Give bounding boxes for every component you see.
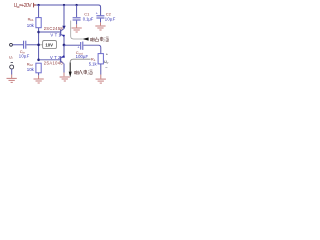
wire stub to voltage box (40, 44, 43, 46)
arrow for source-current annotation (82, 37, 88, 40)
svg-text:Rb1: Rb1 (28, 17, 34, 23)
wire C1 stem (76, 5, 78, 17)
wire top rail (36, 5, 100, 15)
node output junction (63, 44, 66, 47)
wire RL bottom (100, 64, 102, 75)
wire input terminal (10, 43, 13, 46)
node rail-C1 junction (75, 4, 77, 6)
capacitor Cout (81, 42, 83, 50)
ground below C2 (95, 26, 105, 30)
resistor Rb2 (36, 63, 41, 73)
ground below C1 (72, 28, 82, 32)
wire VT1 emitter down to output node (63, 37, 65, 45)
capacitor C1 (73, 18, 81, 20)
ground below RL (96, 79, 106, 83)
label source current (Chinese) (90, 37, 108, 42)
capacitor Cin (24, 41, 26, 49)
wire VT2 emitter up to output node (63, 45, 65, 55)
current arrow on VT1 collector (62, 26, 65, 30)
svg-text:ui: ui (9, 54, 12, 60)
svg-text:5.1k: 5.1k (89, 61, 98, 66)
svg-text:+: + (96, 12, 98, 16)
node rail-VT1 junction (63, 4, 65, 6)
capacitor C2 (96, 16, 104, 18)
leader line for sink-current annotation (70, 59, 90, 71)
node input junction (37, 43, 40, 46)
wire Rb2 to ground (38, 73, 40, 76)
ground below VT2 (60, 77, 70, 81)
svg-text:+: + (106, 52, 109, 57)
wire Cout to RL corner (83, 45, 100, 53)
source tilde mark (11, 62, 13, 64)
ground below Rb2 (34, 79, 44, 83)
svg-text:10V: 10V (45, 43, 53, 48)
node rail-Rb1 junction (37, 4, 39, 6)
wire source to ground (11, 69, 13, 75)
svg-text:Ucc=+20V: Ucc=+20V (14, 3, 33, 9)
svg-text:10k: 10k (27, 67, 35, 72)
svg-text:10µF: 10µF (19, 53, 30, 58)
ground below source (7, 78, 17, 82)
wire Rb1 top stem (38, 5, 40, 18)
svg-text:10k: 10k (27, 23, 35, 28)
resistor RL (98, 54, 103, 64)
wire output node to Cout (64, 44, 80, 46)
node base junction VT1 (37, 31, 40, 34)
svg-text:VT1: VT1 (50, 33, 61, 38)
resistor Rb1 (36, 18, 41, 28)
svg-text:10µF: 10µF (105, 17, 116, 22)
arrow for sink-current annotation (69, 72, 72, 78)
wire VT2 base (39, 59, 61, 61)
voltage annotation box 10V (43, 41, 57, 49)
wire VT2 collector down (63, 64, 65, 73)
label sink current (Chinese) (74, 70, 92, 75)
svg-text:−: − (105, 64, 108, 69)
svg-text:0.1µF: 0.1µF (83, 17, 94, 22)
transistor VT2 (61, 55, 64, 63)
node base junction VT2 (37, 59, 40, 62)
leader line for source-current annotation (71, 21, 83, 40)
svg-text:100µF: 100µF (76, 54, 89, 59)
supply terminal (34, 3, 37, 8)
svg-text:VT2: VT2 (50, 55, 61, 60)
source terminal circle (10, 65, 14, 69)
transistor VT1 (61, 29, 64, 37)
wire Rb1 bottom to base bus (38, 28, 40, 60)
wire VT1 base (39, 31, 61, 33)
wire VT1 collector (63, 5, 65, 29)
